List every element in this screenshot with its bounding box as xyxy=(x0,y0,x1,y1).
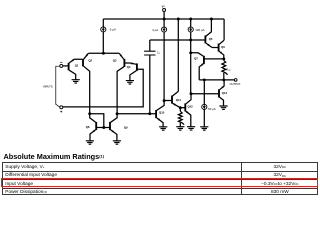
wire rail right end down to Q6 collector xyxy=(223,19,225,40)
wire Q13 base run xyxy=(191,93,218,95)
label plus sign xyxy=(60,111,62,113)
wire Q8-Q9 base tie xyxy=(97,127,109,129)
wire Cc bottom to mirror node xyxy=(149,55,151,113)
transistor Q2 xyxy=(83,53,93,113)
junction node output-I4 tap xyxy=(203,78,206,81)
junction node rail-Q11c xyxy=(177,18,180,21)
svg-text:100 µA: 100 µA xyxy=(195,28,204,32)
svg-text:CC: CC xyxy=(157,51,161,56)
svg-text:6 µA: 6 µA xyxy=(110,28,116,32)
red highlight box on Input Voltage row xyxy=(1,178,319,187)
wire V+ terminal stem xyxy=(163,12,165,19)
junction node Rsc bottom xyxy=(222,78,225,81)
junction node rail-I3 xyxy=(189,18,192,21)
wire IN- terminal to Q1 base xyxy=(63,65,68,67)
transistor Q1 xyxy=(69,59,83,79)
terminal IN+ (non-inverting input) xyxy=(60,106,63,109)
junction node Q8 collector xyxy=(88,112,91,115)
wire rail to I3 top xyxy=(190,19,192,27)
junction node diff emitters xyxy=(102,52,105,55)
wire Q7 collector node down to Q13 base node xyxy=(190,53,192,94)
junction node Cc bottom xyxy=(148,112,151,115)
svg-text:Q4: Q4 xyxy=(127,65,131,69)
wire Q2-Q3 emitter tie xyxy=(88,52,119,54)
svg-text:4 µA: 4 µA xyxy=(152,28,158,32)
junction node Q8-Q9 base xyxy=(102,126,105,129)
svg-text:Q13: Q13 xyxy=(222,91,228,95)
ground Q4 collector xyxy=(126,81,134,84)
wire Q8 collector-to-base diode link xyxy=(90,114,104,128)
svg-text:Q11: Q11 xyxy=(176,98,182,102)
junction node R1 top xyxy=(179,106,182,109)
wire rail to I2 top xyxy=(163,19,165,27)
svg-text:V+: V+ xyxy=(162,4,166,8)
wire R1 top stub xyxy=(179,108,181,112)
wire Rsc bottom stub xyxy=(223,73,225,80)
wire rail left end down to I1 xyxy=(102,19,104,27)
svg-text:RSC: RSC xyxy=(226,68,231,73)
wire Rsc top stub xyxy=(223,59,225,61)
svg-text:Q12: Q12 xyxy=(187,105,193,109)
absolute maximum ratings table xyxy=(2,162,318,195)
transistor Q5 xyxy=(205,19,213,48)
wire I3 output to node B xyxy=(190,32,192,40)
transistor Q7 xyxy=(191,53,224,80)
ground R1 bottom xyxy=(176,127,184,130)
transistor Q13 xyxy=(219,80,227,106)
wire V+ top rail xyxy=(103,18,224,20)
wire Cc top stub xyxy=(149,40,151,51)
wire inputs bracket xyxy=(56,66,60,107)
wire I2 output down to node A xyxy=(163,32,165,100)
svg-text:50 µA: 50 µA xyxy=(208,107,216,111)
junction node Q13 base xyxy=(190,92,193,95)
junction node Q9 collector xyxy=(116,112,119,115)
svg-text:Q5: Q5 xyxy=(209,37,213,41)
junction node rail-Q5c xyxy=(210,18,213,21)
table title xyxy=(4,152,105,161)
wire node A to Q11 base xyxy=(164,100,171,102)
ground Q1 collector xyxy=(72,80,80,83)
wire R1 bottom stub xyxy=(179,123,181,127)
terminal V+ xyxy=(163,9,166,12)
wire compensation node B horizontal run xyxy=(150,39,205,41)
junction node Rsc top xyxy=(222,57,225,60)
current source I3 100uA xyxy=(188,27,204,32)
transistor Q6 xyxy=(219,40,226,59)
wire Q12 base from R1 top node xyxy=(180,107,184,109)
wire I4 bottom to ground xyxy=(203,110,205,127)
wire Q5 emitter to Q6 base xyxy=(212,47,218,49)
svg-text:INPUTS: INPUTS xyxy=(43,84,53,88)
junction node rail-V+ xyxy=(163,18,166,21)
transistor Q4 xyxy=(127,62,137,80)
transistor Q10 xyxy=(156,101,165,127)
ground Q12 emitter xyxy=(187,127,195,130)
ground Q10 emitter xyxy=(159,127,167,130)
svg-text:Q7: Q7 xyxy=(194,57,198,61)
junction node B (I3/comp) xyxy=(189,39,192,42)
transistor Q11 xyxy=(172,91,181,107)
svg-text:Q2: Q2 xyxy=(88,59,92,63)
wire Q9 collector node to Q10 base xyxy=(117,113,155,115)
transistor Q3 xyxy=(113,53,130,113)
wire IN+ run to Q4 base riser xyxy=(63,69,143,107)
current source I1 6uA xyxy=(101,27,116,32)
terminal OUTPUT xyxy=(234,79,237,82)
wire I1 bottom to diff-pair emitter node xyxy=(102,32,104,53)
svg-text:Q3: Q3 xyxy=(113,59,117,63)
svg-text:Q9: Q9 xyxy=(124,125,128,129)
junction node A (I2/Q10c/Q11b) xyxy=(163,99,166,102)
current source I2 4uA xyxy=(152,27,167,32)
ground Q9 emitter xyxy=(113,141,121,144)
resistor Rsc xyxy=(222,60,228,74)
resistor R1 (Q11 emitter) xyxy=(178,111,184,124)
transistor Q8 xyxy=(86,114,96,141)
ground I4 bottom xyxy=(200,127,208,130)
wire output run xyxy=(199,79,234,81)
wire output node to I4 xyxy=(203,80,205,104)
svg-text:Q10: Q10 xyxy=(159,111,165,115)
capacitor Cc xyxy=(144,51,161,56)
wire node B down to Q7 collector node xyxy=(190,40,192,53)
label minus sign xyxy=(60,62,62,64)
terminal IN- (inverting input) xyxy=(60,64,63,67)
svg-text:OUTPUT: OUTPUT xyxy=(230,82,241,86)
transistor Q9 xyxy=(110,114,128,141)
current source I4 50uA xyxy=(202,104,216,111)
svg-text:Q1: Q1 xyxy=(75,64,79,68)
ground Q8 emitter xyxy=(86,141,94,144)
svg-text:Q6: Q6 xyxy=(221,45,225,49)
ground Q13 collector xyxy=(219,106,227,109)
junction node Q7 collector xyxy=(189,51,192,54)
transistor Q12 xyxy=(185,94,193,127)
svg-text:Q8: Q8 xyxy=(86,125,90,129)
wire Q11 collector riser to rail xyxy=(177,19,179,91)
